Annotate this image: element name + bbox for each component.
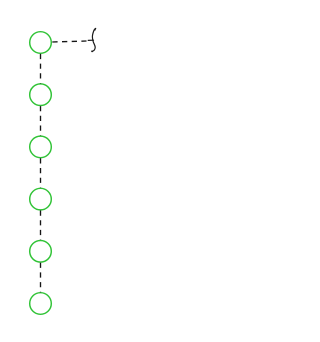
wire dashed vertical link 2-3 — [40, 106, 42, 136]
wire dashed vertical link 3-4 — [40, 158, 42, 188]
node circle 5 — [30, 241, 52, 263]
wire dashed horizontal link to f — [52, 41, 86, 42]
wire dashed vertical link 5-6 — [40, 263, 42, 293]
node circle 3 — [30, 136, 52, 158]
wire dashed vertical link 1-2 — [40, 54, 42, 84]
node circle 1 — [30, 32, 52, 54]
node circle 4 — [30, 188, 52, 210]
label f (math italic) — [88, 28, 96, 52]
wire dashed vertical link 4-5 — [40, 211, 42, 241]
node circle 2 — [30, 84, 52, 106]
node circle 6 — [30, 293, 52, 315]
